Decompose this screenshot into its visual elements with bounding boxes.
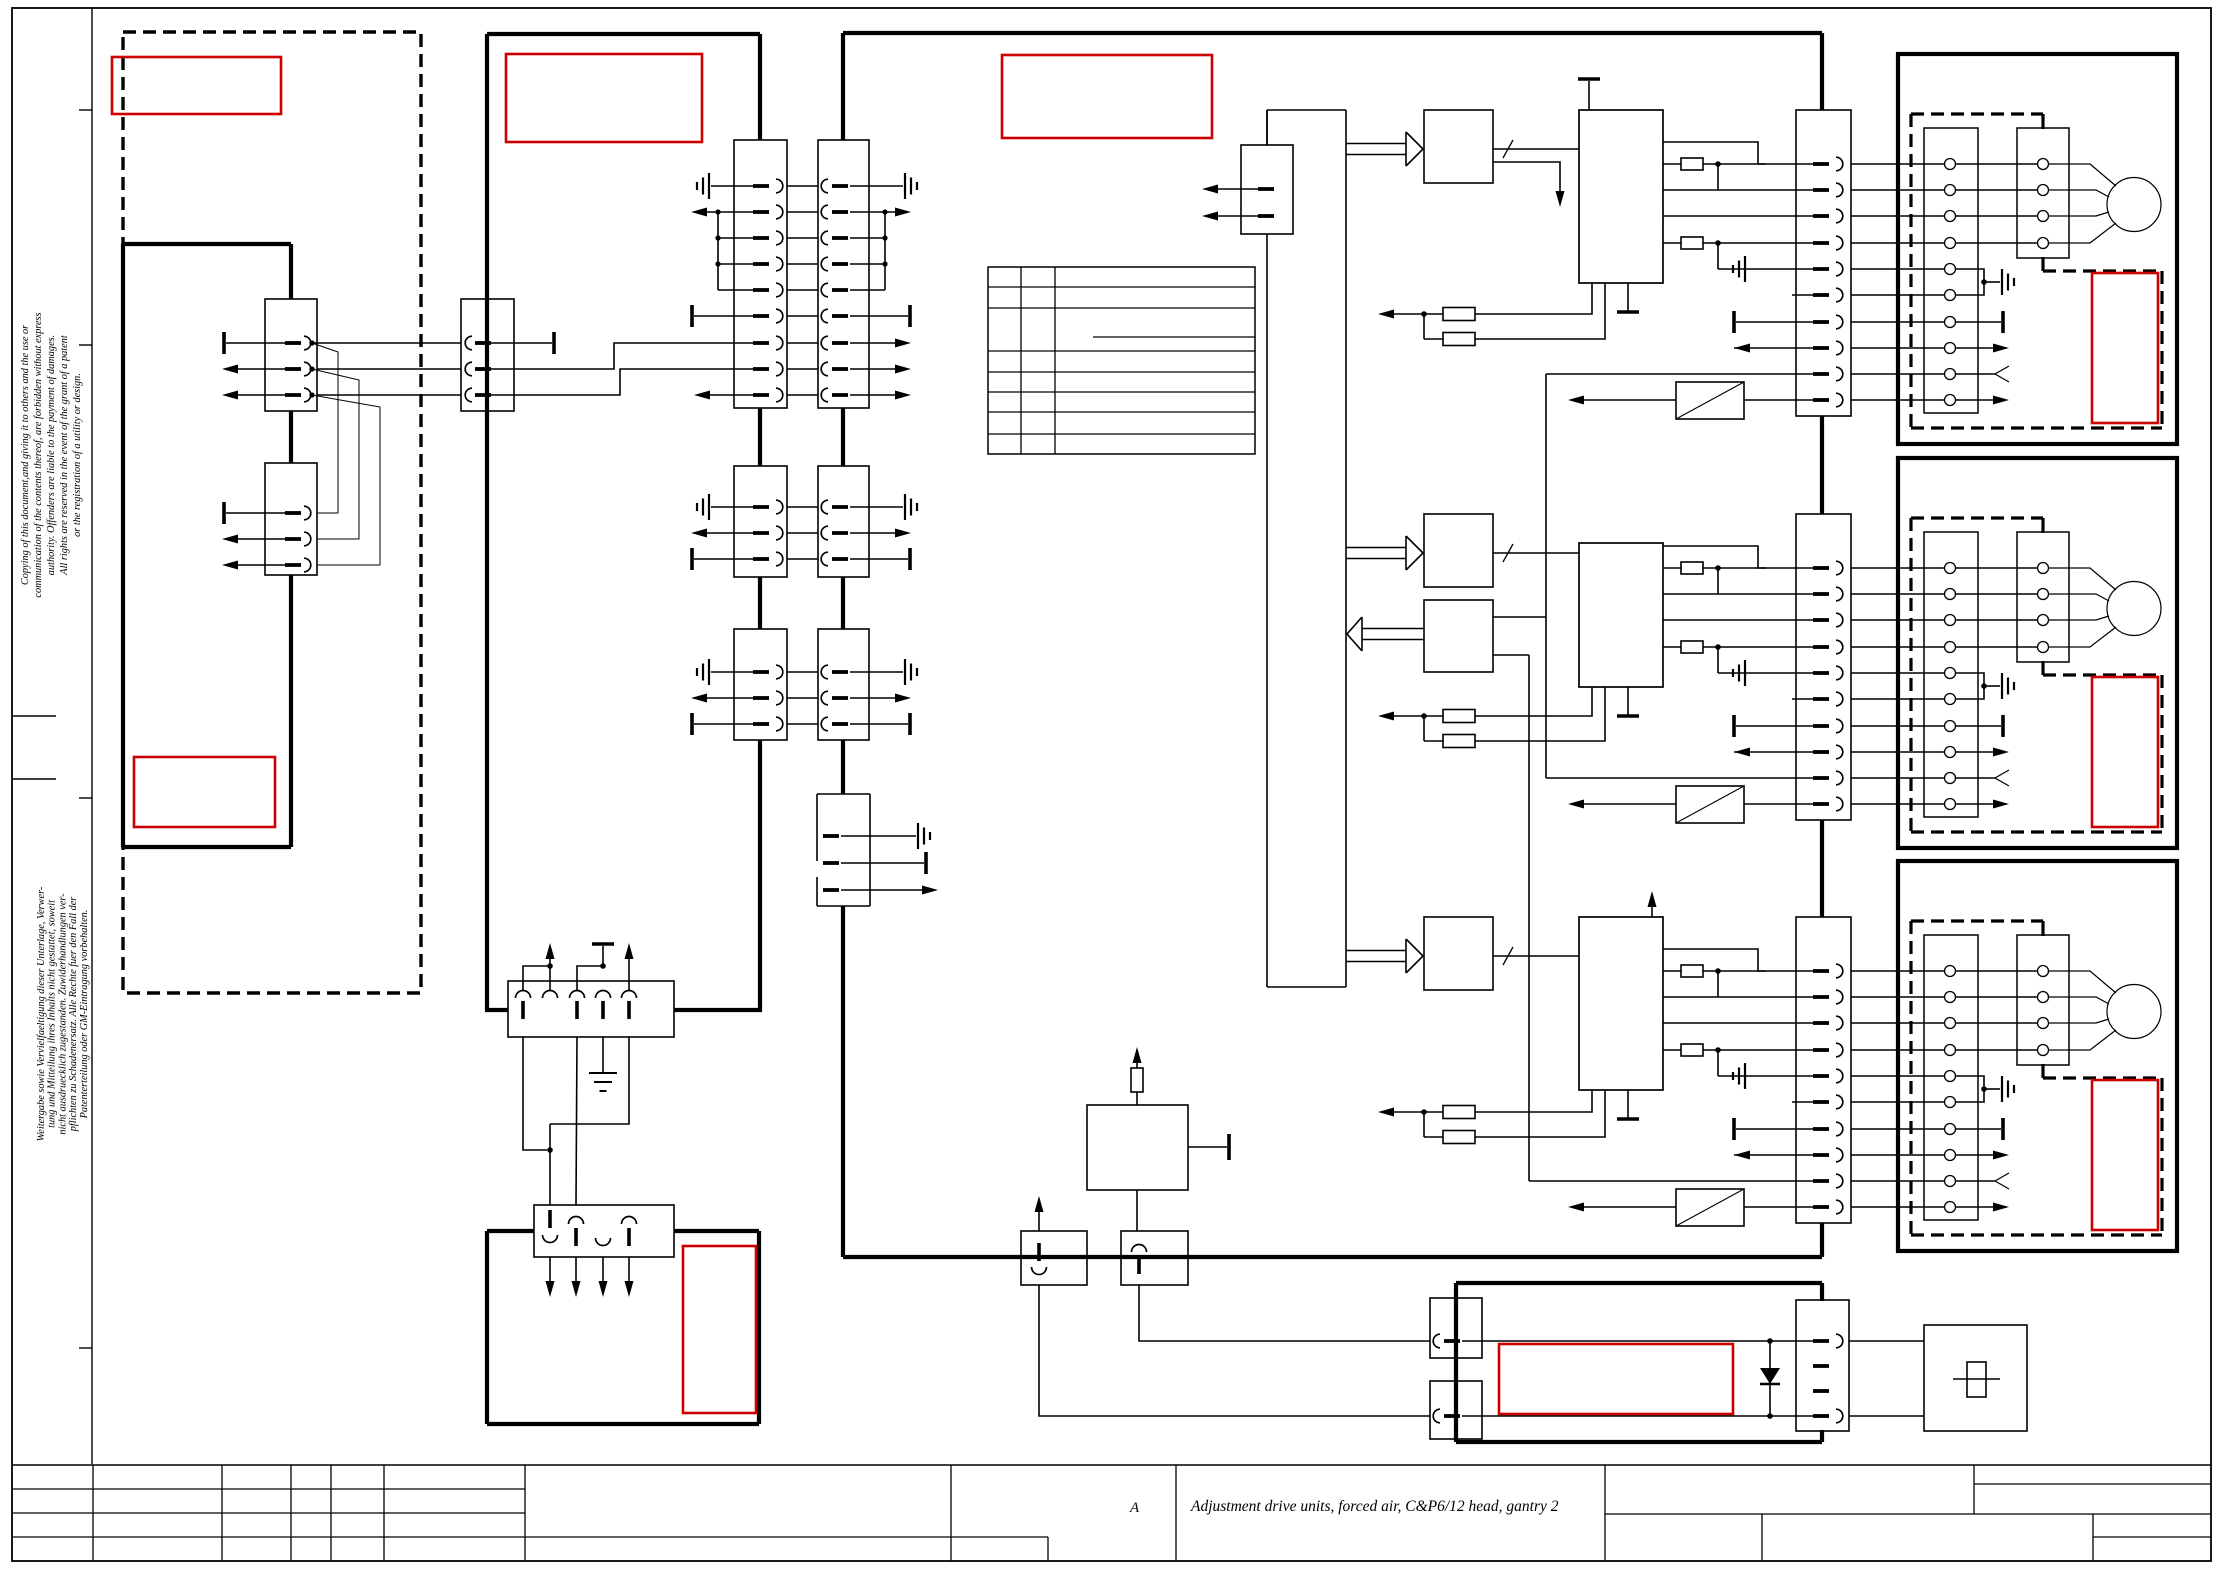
bus input arrow 2 [1218, 215, 1258, 217]
main bus bottom edge [843, 1255, 1822, 1259]
channel 1 sense arrow [1394, 313, 1443, 315]
inter-channel vertical x1529 [1528, 655, 1530, 1181]
channel 1 row7 T terminator [1732, 311, 1736, 333]
channel 3 row7 T terminator [1732, 1118, 1736, 1140]
fan wire lower row [1462, 1415, 1813, 1417]
strip X3 pin 4 [1813, 1048, 1829, 1052]
C row2 wire T1 to T2 [1956, 996, 2037, 998]
junction dot diode bottom [1767, 1413, 1773, 1419]
IC A1 row4-5 link [1717, 243, 1719, 269]
motor unit C dashed shield [1911, 919, 2043, 922]
3pinB left pin 2 [753, 696, 769, 700]
junction dot diode top [1767, 1338, 1773, 1344]
thick wire pair-left column seg4 [758, 740, 762, 1012]
3pinB row3 right T [850, 723, 908, 725]
X-L2 pin 1 [285, 511, 301, 515]
strip X3 pin 1 [1813, 969, 1829, 973]
terminal strip T2 C [2017, 935, 2069, 1065]
9pin right pin 7 [821, 336, 828, 350]
channel 2 row5 wire with chassis ground [1718, 672, 1813, 674]
channel 3 row5 wire with chassis ground [1718, 1075, 1813, 1077]
copyright notice english rotated [20, 312, 83, 597]
controller IC A3 [1579, 917, 1663, 1090]
C row9 open contact [1956, 1180, 1995, 1182]
T1 A terminal 9 [1945, 369, 1956, 380]
T2 B terminal 1 [2038, 563, 2049, 574]
wire 550 down to lower strip [549, 1124, 551, 1205]
channel 1 sense link [1423, 314, 1425, 339]
9pin row5 right wire [850, 289, 885, 291]
table row line y392 [988, 391, 1255, 393]
X-L1 pin 3 [285, 393, 301, 397]
T terminator left of X-L1 pin1 [222, 332, 226, 354]
up arrow box1 [1038, 1203, 1040, 1231]
strip X1 pin 7 [1813, 320, 1829, 324]
fan connector lower pin [1433, 1409, 1440, 1423]
arrow wire X-L1 pin3 [238, 394, 285, 396]
3pinB row 2 center wire [787, 697, 818, 699]
table row line y351 [988, 350, 1255, 352]
IC A2 row0 jog wire [1663, 546, 1766, 568]
9pin row 1 center wire [787, 185, 818, 187]
strip X2 pin 3 [1813, 618, 1829, 622]
IC A3 row4-5 link [1717, 1050, 1719, 1076]
A motor lead 4 [2049, 223, 2116, 243]
T1 C terminal 5 [1945, 1071, 1956, 1082]
thick wire strip to pair column [674, 1008, 762, 1012]
driver box U1a [1424, 110, 1493, 183]
single box row3 arrow [841, 889, 924, 891]
wire below pin3 [576, 1037, 577, 1205]
connector strip X2 [1796, 514, 1851, 820]
B row2 wire strip to T1 [1851, 593, 1944, 595]
T2 C terminal 3 [2038, 1018, 2049, 1029]
T1 C terminal 4 [1945, 1045, 1956, 1056]
9pin row9 right arrow [850, 394, 895, 396]
B row7 wire strip to T1 [1851, 725, 1944, 727]
strip X1 pin 6 [1813, 293, 1829, 297]
9pin row 4 center wire [787, 263, 818, 265]
A thermal bridge rows5-6 [1956, 269, 1984, 295]
B row2 wire T1 to T2 [1956, 593, 2037, 595]
svg-text:or the registration of a utili: or the registration of a utility or desi… [72, 373, 83, 537]
A row7 wire strip to T1 [1851, 321, 1944, 323]
label red box motor A [2092, 273, 2158, 423]
A row1 wire strip to T1 [1851, 163, 1944, 165]
3pinA left pin 3 [753, 557, 769, 561]
B row8 arrow [1956, 751, 1995, 753]
title block column x1762 [1761, 1514, 1763, 1561]
crossover wire L1p3 to L2 row3 [312, 395, 380, 565]
svg-text:All rights are reserved in the: All rights are reserved in the event of … [59, 334, 70, 576]
svg-text:nicht ausdruecklich zugestand: nicht ausdruecklich zugestanden. Zuwider… [57, 893, 68, 1135]
channel 2 row7 T terminator [1732, 715, 1736, 737]
strip X2 pin 2 [1813, 592, 1829, 596]
table row line y308 [988, 307, 1255, 309]
A row2 wire T1 to T2 [1956, 189, 2037, 191]
connector X-L1 [265, 299, 317, 411]
down arrow below lower strip x603 [602, 1257, 604, 1290]
motor unit B shield bond bottom [2041, 661, 2044, 675]
IC A1 row0 jog wire [1663, 142, 1766, 164]
main bus left edge seg3 [841, 577, 845, 629]
bus feed strip2 to strip3 [1820, 820, 1824, 917]
wire R1 pin3 jog to 9pin row8 [491, 369, 753, 395]
A row9 wire strip to T1 [1851, 373, 1944, 375]
wire box top to bus rect [1266, 110, 1268, 145]
9pin right pin 1 [821, 179, 828, 193]
strip X3 pin 3 [1813, 1021, 1829, 1025]
channel 3 DC converter output arrow [1584, 1206, 1676, 1208]
title block row line 1484 right [1974, 1483, 2211, 1485]
IC A2 row3 wire [1663, 619, 1813, 621]
T1 A terminal 3 [1945, 211, 1956, 222]
strip X1 pin 9 [1813, 372, 1829, 376]
channel 2 sense arrow [1394, 715, 1443, 717]
3pinA right pin 3 [821, 552, 828, 566]
T2 A terminal 3 [2038, 211, 2049, 222]
left margin column right line [91, 8, 93, 1464]
fan connector lower [1430, 1381, 1482, 1439]
motor unit A shield bond top [2041, 114, 2044, 129]
9pin row 9 center wire [787, 394, 818, 396]
strip X1 pin 2 [1813, 188, 1829, 192]
bus distribution rack rectangle [1267, 109, 1346, 111]
X-R1 pin 1 [465, 336, 472, 350]
T terminator left of X-L2 pin1 [222, 502, 226, 524]
channel 3 sense resistor 1 [1443, 1106, 1475, 1119]
channel 2 sense wire 1 [1475, 687, 1592, 716]
strip X2 pin 10 [1813, 802, 1829, 806]
T1 A terminal 8 [1945, 343, 1956, 354]
title block column x222 [221, 1465, 223, 1561]
power supply box [1087, 1105, 1188, 1190]
title block column x93 [92, 1465, 94, 1561]
3pinB row1 right ground [850, 671, 903, 673]
9pin right pin 5 [821, 283, 828, 297]
9pin row9 left arrow [710, 394, 753, 396]
strip X3 pin 2 [1813, 995, 1829, 999]
bottom left unit thick box [487, 1229, 534, 1233]
9pin row1 left ground [711, 185, 753, 187]
label red box motor B [2092, 677, 2158, 827]
A bridge ground [1984, 281, 2000, 283]
3pinA row 3 center wire [787, 558, 818, 560]
X-L2 pin 2 [285, 537, 301, 541]
junction dot L1 pin2 [309, 366, 314, 371]
channel 3 row9 wire [1529, 1180, 1813, 1182]
arrow wire X-L2 pin2 [238, 538, 285, 540]
motor unit C thick box [1898, 861, 2177, 1251]
IC A2 row1-2 link [1717, 568, 1719, 594]
C row4 wire T1 to T2 [1956, 1049, 2037, 1051]
relay box [1924, 1325, 2027, 1431]
fan connector upper [1430, 1298, 1482, 1358]
A motor lead 1 [2049, 164, 2116, 186]
driver box U2a [1424, 514, 1493, 587]
3pinA row3 left T [690, 548, 694, 570]
B row7 T terminator [1956, 725, 2001, 727]
channel 3 IC ground [1627, 1090, 1629, 1118]
down arrow below lower strip x629 [628, 1257, 630, 1290]
controller IC A2 [1579, 543, 1663, 687]
label red box motor C [2092, 1080, 2158, 1230]
9pin left pin 8 [753, 367, 769, 371]
arrow wire X-L1 pin2 [238, 368, 285, 370]
arrow wire X-L2 pin3 [238, 564, 285, 566]
strip X3 pin 9 [1813, 1179, 1829, 1183]
svg-text:Weitergabe sowie Vervielfaelti: Weitergabe sowie Vervielfaeltigung diese… [36, 886, 47, 1141]
single box pin 3 [823, 888, 839, 892]
A motor lead 3 [2049, 212, 2109, 216]
3pinB left pin 3 [753, 722, 769, 726]
wire strip to relay lower [1849, 1415, 1924, 1417]
upper strip pin socket 550 [543, 991, 558, 998]
C row8 wire strip to T1 [1851, 1154, 1944, 1156]
thick wire pair-left column seg1 [758, 34, 762, 140]
channel 3 sense arrow [1394, 1111, 1443, 1113]
9pin right pin 4 [821, 257, 828, 271]
B row8 wire strip to T1 [1851, 751, 1944, 753]
strip X3 pin 7 [1813, 1127, 1829, 1131]
crossover wire L1p2 to L2 row2 [312, 369, 359, 539]
9pin right pin 6 [821, 309, 828, 323]
T1 A terminal 5 [1945, 264, 1956, 275]
strip X2 pin 1 [1813, 566, 1829, 570]
9pin row 5 center wire [787, 289, 818, 291]
channel 1 row9 wire [1546, 373, 1813, 375]
3pinA row2 right arrow [850, 532, 895, 534]
relay coil symbol [1953, 1378, 2000, 1380]
9pin row6 left T [690, 305, 694, 327]
T1 C terminal 6 [1945, 1097, 1956, 1108]
T2 C terminal 1 [2038, 966, 2049, 977]
table row line y372 [988, 371, 1255, 373]
IC A3 series resistor row4 [1663, 1049, 1681, 1051]
3pinA left pin 2 [753, 531, 769, 535]
lower strip pin 1 [548, 1210, 552, 1228]
IC A3 row2 wire [1663, 996, 1813, 998]
fan connector upper pin [1433, 1334, 1440, 1348]
supply right T terminator [1188, 1146, 1227, 1148]
title block row line 1489 [12, 1488, 525, 1490]
lower strip pin 3 [596, 1238, 611, 1246]
label red box A [112, 57, 281, 114]
channel 3 sense wire 2 [1475, 1090, 1605, 1137]
label red box bottom-left unit [683, 1246, 756, 1413]
connector 3pinA right box [818, 466, 869, 577]
unit box B right edge segments [289, 244, 293, 299]
3pinA row 2 center wire [787, 532, 818, 534]
strip X1 pin 3 [1813, 214, 1829, 218]
T1 A terminal 6 [1945, 290, 1956, 301]
9pin right pin 8 [821, 362, 828, 376]
9pin row3 left wire [718, 237, 753, 239]
channel 1 sense wire 1 [1475, 283, 1592, 314]
T terminator right of X-R1 pin1 [491, 342, 552, 344]
9pin row2 left arrow [707, 211, 753, 213]
svg-text:Patenterteilung oder GM-Eintra: Patenterteilung oder GM-Eintragung vorbe… [79, 910, 90, 1120]
connector 9pin left box [734, 140, 787, 408]
9pin left pin 3 [753, 236, 769, 240]
IC A3 row0 jog wire [1663, 949, 1766, 971]
T1 B terminal 3 [1945, 615, 1956, 626]
wire box2 to fan unit upper [1139, 1285, 1430, 1341]
channel 1 sense resistor 2 [1424, 338, 1443, 340]
enclosure cabinet bottom jog to strip [485, 1008, 508, 1012]
motor unit A thick box [1898, 54, 2177, 444]
9pin left pin 1 [753, 184, 769, 188]
table row line y412 [988, 411, 1255, 413]
9pin row3 right wire [850, 237, 885, 239]
channel 1 row10 wire [1744, 399, 1813, 401]
strip X2 pin 7 [1813, 724, 1829, 728]
table row line y287 [988, 286, 1255, 288]
C motor lead 3 [2049, 1019, 2109, 1023]
channel 2 sense resistor 2 [1424, 740, 1443, 742]
channel 1 row5 wire with chassis ground [1718, 268, 1813, 270]
C motor lead 1 [2049, 971, 2116, 993]
motor unit B dashed shield [1911, 516, 2043, 519]
upper terminal strip [508, 981, 674, 1037]
T1 A terminal 10 [1945, 395, 1956, 406]
9pin row2 right arrow [850, 211, 895, 213]
X-R1 pin 2 [465, 362, 472, 376]
3pinB right pin 2 [821, 691, 828, 705]
channel 1 DC converter [1676, 382, 1744, 419]
connector strip X3 [1796, 917, 1851, 1223]
channel 3 row10 wire [1744, 1206, 1813, 1208]
3pinB row2 left arrow [707, 697, 753, 699]
wire box1 to fan unit lower [1039, 1285, 1430, 1416]
lower strip pin 4 [622, 1217, 637, 1224]
3pinA left pin 1 [753, 505, 769, 509]
connector single box right column [817, 793, 870, 795]
9pin left pin 2 [753, 210, 769, 214]
table column x1021 [1020, 267, 1022, 454]
wire 550 into pin2 [549, 966, 551, 990]
3pinA row3 right T [850, 558, 908, 560]
3pinB right pin 3 [821, 717, 828, 731]
title block top line [12, 1464, 2211, 1466]
wire L1 pin2 row [317, 368, 461, 370]
label red box cabinet [506, 54, 702, 142]
svg-text:Copying of this document,and g: Copying of this document,and giving it t… [20, 324, 31, 585]
T2 A terminal 2 [2038, 185, 2049, 196]
channel 1 sense resistor 1 [1443, 308, 1475, 321]
B row9 open contact [1956, 777, 1995, 779]
9pin row4 right wire [850, 263, 885, 265]
motor unit A shield bond bottom [2041, 257, 2044, 271]
9pin row6 right T [850, 315, 908, 317]
A row6 wire strip to T1 [1851, 294, 1944, 296]
9pin left pin 4 [753, 262, 769, 266]
IC A1 series resistor row1 [1663, 163, 1681, 165]
3pinB right pin 1 [821, 665, 828, 679]
strip X3 pin 6 [1813, 1100, 1829, 1104]
T terminator above 603 [602, 946, 604, 966]
C thermal bridge rows5-6 [1956, 1076, 1984, 1102]
label red box B [134, 757, 275, 827]
channel 3 row6 stub [1792, 1101, 1813, 1103]
U2b output 1 [1493, 616, 1546, 618]
9pin left pin 9 [753, 393, 769, 397]
table row line y434 [988, 433, 1255, 435]
IC A2 series resistor row4 [1663, 646, 1681, 648]
A row10 wire strip to T1 [1851, 399, 1944, 401]
wire upper pin3 jog [577, 966, 601, 990]
A row4 wire strip to T1 [1851, 242, 1944, 244]
T1 B terminal 10 [1945, 799, 1956, 810]
bus feed to strip1 [1820, 33, 1824, 110]
B row9 wire strip to T1 [1851, 777, 1944, 779]
table column x1055 [1054, 267, 1056, 454]
thick wire pair-left column seg3 [758, 577, 762, 629]
C row10 arrow [1956, 1206, 1995, 1208]
down arrow below lower strip x550 [549, 1257, 551, 1290]
fan strip pin 1 [1813, 1339, 1829, 1343]
B row3 wire T1 to T2 [1956, 619, 2037, 621]
T2 C terminal 4 [2038, 1045, 2049, 1056]
wire R1 pin2 jog to 9pin row7 [491, 343, 753, 369]
B motor lead 3 [2049, 616, 2109, 620]
dashed enclosure trolley [123, 32, 421, 993]
T2 A terminal 4 [2038, 238, 2049, 249]
connector X-L2 [265, 463, 317, 575]
B motor lead 4 [2049, 627, 2116, 647]
C row7 T terminator [1956, 1128, 2001, 1130]
earth ground symbol [589, 1072, 617, 1074]
hollow arrow into U3a [1346, 950, 1406, 952]
driver box U3a [1424, 917, 1493, 990]
A motor lead 2 [2049, 190, 2109, 197]
wire L1 pin3 row [317, 394, 461, 396]
motor unit B shield bond top [2041, 518, 2044, 533]
channel 1 row8 arrow [1734, 347, 1813, 349]
channel 3 sense wire 1 [1475, 1090, 1592, 1112]
9pin right pin 3 [821, 231, 828, 245]
9pin left loop vertical [717, 212, 719, 290]
hollow arrow into U2a [1346, 547, 1406, 549]
B thermal bridge rows5-6 [1956, 673, 1984, 699]
channel 1 row6 stub [1792, 294, 1813, 296]
wire L1 pin1 to R1 pin1 [312, 342, 461, 344]
strip X2 pin 9 [1813, 776, 1829, 780]
A row5 wire strip to T1 [1851, 268, 1944, 270]
title block column x384 [383, 1465, 385, 1561]
3pinB row 1 center wire [787, 671, 818, 673]
C row1 wire T1 to T2 [1956, 970, 2037, 972]
connector 9pin right box [818, 140, 869, 408]
A row3 wire T1 to T2 [1956, 215, 2037, 217]
margin tick y1348 [79, 1347, 92, 1349]
motor unit C shield bond bottom [2041, 1064, 2044, 1078]
9pin row 3 center wire [787, 237, 818, 239]
title block row line 1537 [12, 1536, 1048, 1538]
fan strip pin 2 [1813, 1364, 1829, 1368]
T1 B terminal 8 [1945, 747, 1956, 758]
3pinA row 1 center wire [787, 506, 818, 508]
T2 A terminal 1 [2038, 159, 2049, 170]
C row8 arrow [1956, 1154, 1995, 1156]
9pin row 6 center wire [787, 315, 818, 317]
terminal strip T1 B [1924, 532, 1978, 817]
wire below pin4 to earth [602, 1037, 604, 1073]
T1 B terminal 2 [1945, 589, 1956, 600]
channel 1 sense wire 2 [1475, 283, 1605, 339]
9pin left pin 5 [753, 288, 769, 292]
single box pin 2 [823, 861, 839, 865]
